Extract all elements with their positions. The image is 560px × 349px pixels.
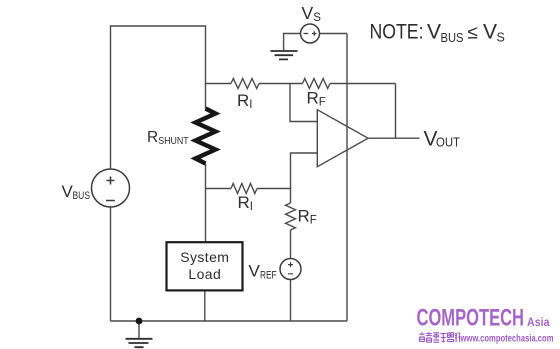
wire system load bottom [204,291,206,322]
svg-text:COMPOTECH: COMPOTECH [417,305,525,332]
wire lower branch left [206,188,232,190]
source VREF [280,259,301,280]
svg-text:NOTE:: NOTE: [370,20,424,43]
resistor RSHUNT [196,109,216,164]
svg-text:REF: REF [260,270,277,282]
svg-text:RI: RI [238,193,253,213]
svg-text:RF: RF [298,207,317,227]
label VREF [249,262,277,282]
wire VS supply rail [346,34,348,322]
label VBUS [62,182,91,202]
wire node between RI and RF top [259,83,303,85]
wire VREF bottom [290,280,292,322]
wire bottom ground bus [111,320,348,322]
logo tagline CJK [419,332,459,342]
svg-text:V: V [427,20,441,43]
wire top branch left [206,83,232,85]
ground main [126,339,153,347]
wire VS left to ground [284,34,301,51]
wire shunt bottom to load [205,164,207,242]
svg-text:OUT: OUT [436,135,460,149]
logo COMPOTECH Asia [417,305,550,332]
resistor RI top [231,79,259,89]
wire top-left loop VBUS to shunt rail [111,26,206,169]
svg-text:System: System [180,249,229,265]
svg-text:VS: VS [302,3,322,24]
resistor RF vertical [286,203,296,230]
svg-text:BUS: BUS [73,190,91,202]
wire RF top to feedback corner [330,83,396,85]
resistor RI lower [231,184,257,194]
svg-text:BUS: BUS [441,31,464,45]
wire VS right [320,33,348,35]
op-amp U1 [317,110,368,167]
svg-text:≤: ≤ [468,22,478,43]
label System Load [180,249,229,282]
svg-text:V: V [249,262,261,281]
ground at VS [271,51,298,59]
source VBUS [92,169,130,207]
svg-text:www.compotechasia.com: www.compotechasia.com [460,332,554,344]
resistor RF top [303,79,330,89]
svg-text:V: V [483,20,497,43]
svg-text:S: S [497,31,505,45]
wire RF vertical to VREF [290,230,292,259]
svg-text:RF: RF [307,89,326,109]
wire noninverting input drop [290,84,317,122]
svg-text:Load: Load [188,266,221,282]
svg-text:Asia: Asia [527,316,550,329]
System Load box [167,242,243,290]
wire left rail lower [110,207,112,321]
wire inverting input riser [291,153,318,203]
wire output [368,137,420,139]
source VS [301,24,320,43]
svg-text:RSHUNT: RSHUNT [147,129,189,147]
wire lower RI to node [257,188,291,190]
wire feedback vertical [395,84,397,139]
node ground junction [136,318,143,325]
label VOUT [424,128,461,151]
wire ground stub bottom [138,321,140,338]
note text VBUS less-equal VS [370,20,505,45]
svg-text:RI: RI [237,91,252,111]
